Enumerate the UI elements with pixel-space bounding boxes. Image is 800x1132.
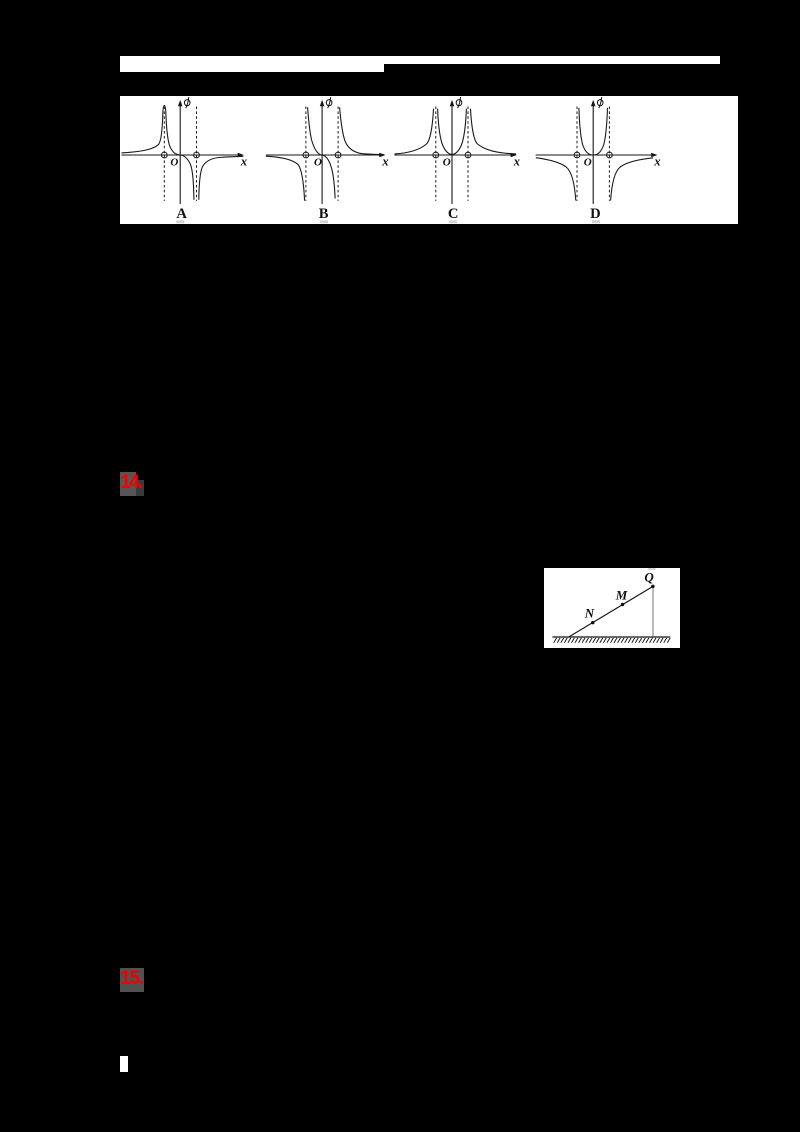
svg-text:C: C (448, 206, 459, 222)
graph B charge circle right (335, 152, 341, 158)
graph D dashed asymptote right (608, 106, 610, 200)
graph B dashed asymptote left (305, 106, 307, 200)
svg-text:x: x (653, 154, 660, 168)
graph B potential curve middle branch (308, 107, 335, 198)
vertical pole under Q (652, 586, 654, 636)
svg-text:Q: Q (644, 569, 654, 584)
graph B dashed asymptote right (337, 106, 339, 200)
graph C potential curve right branch (470, 108, 515, 153)
top header thick white bar (120, 56, 384, 72)
graph B charge circle left (303, 152, 309, 158)
graph D dashed asymptote left (576, 106, 578, 200)
svg-text:M: M (615, 587, 628, 602)
graph A dashed asymptote left (163, 106, 165, 200)
svg-text:A: A (176, 206, 187, 222)
graph C dashed asymptote right (467, 106, 469, 200)
graph A charge circle left (161, 152, 167, 158)
light gray smudge top of panel (648, 568, 656, 569)
point M (621, 603, 624, 606)
graph A potential curve (122, 105, 194, 199)
graph A phi-axis (179, 104, 181, 203)
svg-text:B: B (319, 206, 329, 222)
gray tab under letter B (320, 220, 328, 223)
figure panel: four potential graphs A-D (120, 96, 738, 224)
svg-text:D: D (590, 206, 601, 222)
svg-text:N: N (584, 605, 595, 620)
graph C phi label (456, 99, 462, 105)
gray tab under letter C (449, 220, 457, 223)
svg-text:x: x (381, 154, 388, 168)
graph C phi-axis (451, 104, 453, 203)
graph C dashed asymptote left (435, 106, 437, 200)
graph C x-axis (394, 153, 511, 155)
figure panel: incline with points N, M, Q (544, 568, 680, 648)
graph D charge circle right (606, 152, 612, 158)
graph D charge circle left (574, 152, 580, 158)
point N (591, 621, 594, 624)
top header thin white rule (384, 56, 720, 64)
red question number 15. with gray highlight (120, 968, 144, 992)
graph B phi label (326, 99, 332, 105)
graph B x-axis (266, 153, 380, 155)
graph D potential curve right branch (611, 157, 653, 200)
gray tab under letter D (592, 220, 600, 223)
graph A dashed asymptote right (196, 106, 198, 200)
svg-text:x: x (240, 154, 247, 168)
graph B phi-axis (321, 104, 323, 203)
incline line N M Q (569, 586, 653, 637)
svg-text:O: O (314, 156, 322, 168)
graph D phi label (597, 99, 603, 105)
graph A charge circle right (194, 152, 200, 158)
graph D potential curve middle U branch (579, 107, 608, 154)
graph C potential curve left branch (394, 108, 433, 153)
ground line (552, 636, 670, 638)
graph C charge circle left (433, 152, 439, 158)
graph C potential curve middle branch (438, 108, 467, 154)
graph A phi label (184, 99, 190, 105)
svg-text:O: O (443, 156, 451, 168)
graph D phi-axis (592, 104, 594, 203)
gray tab under letter A (176, 220, 184, 223)
point Q (651, 585, 654, 588)
svg-text:x: x (513, 154, 520, 168)
ground hatching (554, 638, 670, 643)
graph B potential curve right branch (340, 107, 384, 154)
graph B potential curve left branch (266, 156, 305, 200)
graph D x-axis (536, 153, 652, 155)
svg-text:O: O (170, 156, 178, 168)
graph C charge circle right (465, 152, 471, 158)
svg-text:O: O (584, 156, 592, 168)
graph A x-axis (122, 153, 239, 155)
graph D potential curve left branch (536, 157, 576, 200)
red question number 14. with gray highlight (120, 472, 136, 496)
white page-number tab bottom left (120, 1056, 128, 1072)
